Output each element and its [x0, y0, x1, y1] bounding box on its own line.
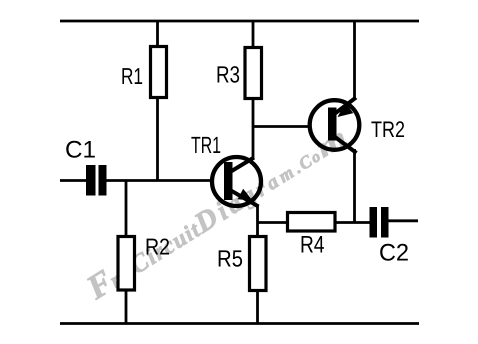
resistor R1 — [151, 47, 167, 98]
label C1 — [66, 141, 95, 158]
wire R3 bottom lead — [252, 98, 255, 158]
wire R4 left lead — [258, 221, 289, 224]
wire TR2 emitter vertical — [353, 149, 356, 223]
transistor TR1 — [212, 157, 261, 207]
label R4 — [302, 236, 324, 253]
wire top rail — [60, 20, 419, 23]
transistor TR2 — [310, 98, 360, 154]
label R3 — [218, 66, 240, 83]
wire R1 top lead — [156, 21, 159, 47]
label R1 — [122, 68, 142, 84]
wire TR2 base — [253, 125, 309, 128]
watermark FreeCircuitDiagram.Com — [87, 133, 347, 300]
label R5 — [219, 250, 242, 266]
wire bottom rail — [60, 322, 419, 325]
resistor R2 — [118, 237, 135, 291]
resistor R3 — [245, 48, 262, 99]
wire R2 bottom lead — [125, 290, 128, 324]
label TR2 — [371, 121, 404, 137]
resistor R4 — [288, 213, 336, 232]
wire TR1 emitter vertical — [256, 205, 259, 237]
wire R1 bottom lead — [156, 97, 159, 181]
wire output right — [388, 219, 418, 222]
wire R4 right lead — [335, 221, 371, 224]
label TR1 — [191, 137, 220, 153]
wire TR1 base — [107, 179, 213, 182]
wire R2 top lead — [125, 181, 128, 238]
wire R5 bottom lead — [256, 290, 259, 324]
wire R3 top lead — [252, 21, 255, 48]
label C2 — [380, 244, 408, 261]
capacitor C1 — [86, 165, 107, 196]
resistor R5 — [250, 237, 267, 291]
capacitor C2 — [370, 207, 389, 238]
wire input left — [60, 179, 86, 182]
label R2 — [147, 238, 169, 254]
wire TR2 collector vertical — [353, 21, 356, 100]
